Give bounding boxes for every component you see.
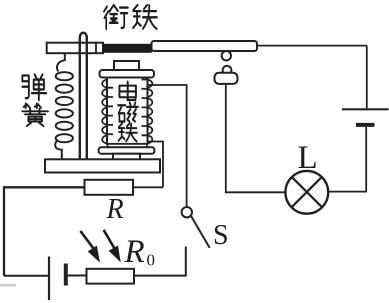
wire coil lower terminal to resistor [148, 142, 164, 188]
label S [213, 220, 229, 251]
coil winding left [102, 80, 113, 144]
battery B1 long plate [48, 257, 50, 301]
wire coil upper terminal to switch [148, 85, 187, 207]
wire fixed contact to lamp [226, 84, 286, 192]
electromagnet core bottom cap [108, 144, 148, 147]
armature right bar [152, 41, 258, 51]
label 衔铁 (armature) hand-drawn glyph 铁 [133, 5, 157, 29]
electromagnet top plate [100, 70, 155, 78]
label L [298, 140, 318, 176]
electromagnet top block [114, 61, 139, 71]
wire from armature right end to right rail [257, 45, 367, 47]
electromagnet bottom plate [99, 147, 155, 153]
fixed contact ring [223, 66, 232, 75]
label 电磁铁 glyph 电 [119, 82, 135, 101]
svg-text:0: 0 [147, 251, 156, 270]
moving contact ring [222, 51, 231, 60]
label 弹簧 (spring) hand-drawn glyph 弹 [22, 74, 46, 100]
electromagnet lower block [113, 154, 140, 160]
wire R0 to switch lower terminal [134, 247, 186, 276]
lamp L circle [285, 171, 328, 214]
lamp X [292, 177, 322, 207]
switch S pivot [182, 207, 192, 217]
armature left bar [47, 43, 103, 54]
switch S blade [191, 216, 209, 248]
resistor R [85, 180, 134, 195]
label R [105, 194, 123, 225]
battery B2 long plate [342, 108, 389, 110]
relay base plate [45, 159, 160, 172]
battery B1 short plate [64, 264, 68, 286]
svg-text:R: R [105, 194, 123, 225]
armature hatched iron section [103, 44, 152, 53]
wire left rail to battery B1 [4, 275, 48, 277]
wire right rail top [366, 46, 368, 109]
wire resistor right [133, 186, 163, 188]
coil winding right [142, 80, 153, 144]
label 电磁铁 glyph 铁 [119, 123, 137, 141]
svg-text:S: S [213, 220, 229, 251]
photoresistor R0 [87, 269, 135, 284]
wire resistor left to left rail [4, 187, 85, 275]
armature bar divider [95, 43, 97, 54]
scan smudge bottom left [0, 284, 16, 287]
light arrow 1 [80, 231, 99, 261]
electromagnet coil body [107, 78, 148, 144]
svg-text:R: R [124, 234, 145, 270]
label 弹簧 (spring) hand-drawn glyph 簧 [22, 104, 48, 127]
wire battery B2 to lamp [328, 127, 367, 192]
pivot post with rounded cap [80, 33, 87, 159]
wire battery B1 to R0 [68, 275, 87, 277]
label 电磁铁 glyph 磁 [118, 103, 138, 122]
fixed contact stud [215, 73, 238, 84]
spring coil [55, 53, 73, 159]
svg-text:L: L [298, 140, 318, 176]
light arrow 2 [104, 230, 120, 261]
label 衔铁 (armature) hand-drawn glyph 衔 [104, 5, 128, 29]
label R0 [124, 234, 156, 270]
battery B2 short plate [356, 123, 375, 127]
